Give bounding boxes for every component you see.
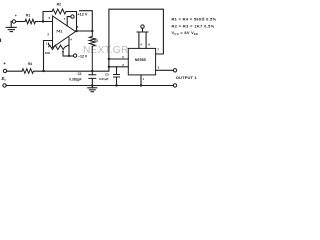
IC NE555	[128, 48, 155, 75]
svg-text:R1: R1	[26, 13, 30, 17]
svg-text:OUTPUT 1: OUTPUT 1	[176, 75, 198, 80]
wire +12V feed to R3	[80, 11, 93, 31]
capacitor C2	[113, 67, 120, 86]
terminal output common	[173, 84, 176, 87]
wire ground to terminal	[11, 21, 12, 23]
svg-text:VCC = 8V VEE: VCC = 8V VEE	[172, 30, 199, 36]
terminal +12V (op-amp)	[71, 15, 74, 18]
terminal (input, open circle)	[12, 20, 15, 23]
terminal Vcc (555)	[141, 25, 144, 28]
svg-text:R2 = R3 = 2K7 0.5%: R2 = R3 = 2K7 0.5%	[172, 24, 215, 29]
plus mark Ec	[4, 62, 6, 64]
ground G2 (C1)	[88, 86, 97, 92]
node junction C1/ground rail	[91, 84, 93, 86]
node junction pin1/ground rail	[140, 84, 142, 86]
node junction R3/C1 rail	[91, 70, 93, 72]
left edge mark	[0, 39, 2, 43]
svg-text:R3: R3	[94, 38, 98, 42]
svg-text:Ec: Ec	[2, 76, 7, 82]
wire pin3	[44, 41, 53, 72]
capacitor C1	[88, 71, 96, 86]
wire R2 riser	[43, 12, 52, 22]
node junction output/R2	[75, 30, 77, 32]
wire 555 net top rail	[109, 9, 163, 71]
svg-text:C2: C2	[105, 72, 109, 76]
svg-text:C1: C1	[78, 72, 82, 76]
wire op-amp output	[76, 30, 93, 32]
svg-text:741: 741	[56, 29, 62, 33]
resistor R1	[25, 19, 36, 24]
wire 555 pin2	[109, 66, 128, 68]
wire rail upper	[34, 70, 109, 72]
terminal Ec+	[3, 69, 6, 72]
potentiometer 10K body	[49, 43, 70, 50]
svg-text:−12 V: −12 V	[78, 54, 88, 58]
node junction pin6 tie	[108, 58, 110, 60]
pin 7 wire	[67, 17, 71, 26]
wire 555 pin6	[109, 58, 128, 60]
ground G1 (input)	[6, 22, 16, 32]
svg-text:R2: R2	[57, 2, 61, 6]
wire R1 to op-amp pin2	[36, 21, 53, 23]
wire terminal to R1	[16, 21, 25, 23]
resistor R3 (vertical)	[89, 31, 95, 71]
svg-text:+12 V: +12 V	[77, 12, 87, 16]
node junction pin2	[42, 20, 44, 22]
node junction pin4/wiper	[68, 55, 70, 57]
svg-text:NE555: NE555	[135, 58, 146, 62]
svg-text:R1 = R4 = 560Ω 0.5%: R1 = R4 = 560Ω 0.5%	[172, 17, 217, 22]
svg-text:0.382µF: 0.382µF	[69, 78, 81, 82]
wire 555 pin1	[140, 75, 142, 86]
op-amp U1 741	[53, 16, 76, 48]
wire rail lower (ground rail)	[6, 85, 173, 87]
wire wiper to -12V	[63, 55, 73, 57]
pot wiper arrow	[62, 52, 64, 56]
node junction pin3/R4	[42, 70, 44, 72]
wire terminal to R4	[7, 70, 22, 72]
node junction output/R3	[91, 30, 93, 32]
resistor R2	[52, 9, 66, 14]
terminal Ec-	[3, 84, 6, 87]
resistor R4	[22, 69, 34, 74]
wire 555 pins 4,8	[137, 28, 148, 48]
node junction C2/ground rail	[115, 84, 117, 86]
terminal -12V	[73, 54, 76, 57]
wire R2 to output	[66, 12, 77, 32]
wire pin4 down	[68, 38, 70, 56]
svg-text:0.01µF: 0.01µF	[99, 77, 109, 81]
svg-text:R4: R4	[28, 62, 32, 66]
svg-text:10K: 10K	[45, 51, 51, 55]
wire 555 pin3 output	[156, 69, 174, 71]
plus mark	[15, 15, 17, 17]
node junction pin2 tie	[108, 66, 110, 68]
terminal OUTPUT 1	[173, 69, 176, 72]
